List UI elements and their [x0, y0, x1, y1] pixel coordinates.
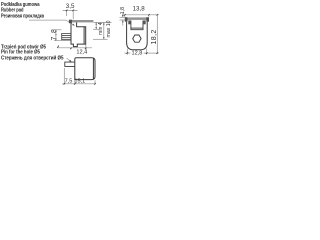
front view: rubber pad (grey bar) — [125, 17, 149, 20]
dimension 7,8 lines and arrows — [54, 30, 71, 41]
side view: pin stack (barbed pin) — [62, 34, 71, 40]
bottom view: body outline — [75, 58, 95, 80]
leader line from rubber-pad label to side view pad — [29, 20, 74, 25]
front view: body outline with round bottom — [127, 22, 148, 50]
dimension 18,2 line — [156, 15, 158, 53]
leader arrowhead at side view — [72, 24, 75, 26]
side view: bracket body outline — [71, 22, 86, 46]
side view: inner wall line — [83, 27, 85, 44]
12,4 left end tick — [57, 46, 59, 48]
svg-text:Резиновая прокладка: Резиновая прокладка — [1, 14, 45, 20]
bottom view: inner tangent line at rounded end — [92, 58, 94, 79]
svg-text:Rubber pad: Rubber pad — [1, 8, 24, 14]
bottom dims line — [62, 68, 95, 85]
leader from pin label to bottom view pin — [67, 58, 72, 62]
svg-text:min 4: min 4 — [98, 22, 104, 35]
front view: square hole — [131, 21, 143, 30]
front view: hex hole — [133, 35, 141, 42]
side view: rubber pad (grey bar) — [71, 20, 94, 22]
svg-text:12,8: 12,8 — [132, 51, 143, 57]
dimension 3,5 line with oblique ticks — [63, 10, 78, 19]
min4/max10 arrowheads — [95, 23, 97, 25]
bottom view: pin — [65, 62, 75, 66]
svg-text:13,8: 13,8 — [133, 5, 146, 12]
svg-text:Стержень для отверстий Ø5: Стержень для отверстий Ø5 — [1, 54, 63, 61]
side view: pad left end cap (dark) — [69, 20, 72, 24]
front view: pad right end cap — [146, 17, 149, 21]
front view: pad left end cap — [125, 17, 128, 21]
front view: left wall post — [128, 20, 131, 24]
svg-text:max 10: max 10 — [106, 20, 112, 37]
dimension 12,8 line segments — [125, 49, 159, 55]
svg-text:3,5: 3,5 — [66, 3, 75, 10]
dimension 1,8 arrows — [120, 13, 126, 26]
svg-text:12,4: 12,4 — [76, 49, 87, 55]
front view: right wall post — [143, 20, 146, 24]
min4/max10 extension and dimension lines — [93, 22, 112, 39]
svg-text:7,8: 7,8 — [51, 28, 58, 40]
dimension 12,4 line — [57, 45, 92, 50]
